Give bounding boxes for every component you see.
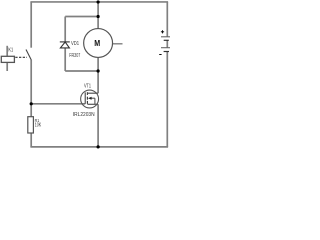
node top rail junction [97, 0, 100, 3]
wire left vertical switch to resistor [30, 60, 32, 117]
wire battery middle link [166, 40, 168, 47]
svg-text:FR307: FR307 [69, 53, 80, 59]
motor right stub [113, 43, 123, 45]
battery GB1 cell2 long plate [161, 47, 171, 49]
wire diode branch lower [64, 48, 66, 71]
battery GB1 cell1 short plate [164, 39, 169, 41]
wire diode branch upper [64, 17, 66, 42]
wire inner rail [65, 16, 98, 18]
resistor R1 body [28, 117, 34, 133]
battery GB1 cell1 long plate [161, 36, 171, 38]
node inner rail junction [97, 15, 100, 18]
svg-text:10K: 10K [35, 122, 42, 128]
wire source vertical [97, 104, 99, 147]
svg-text:VT1: VT1 [84, 83, 91, 89]
svg-text:M: M [94, 38, 100, 48]
wire top dropper to motor [97, 2, 99, 29]
diode VD1 [60, 42, 70, 48]
wire left vertical upper to switch [30, 2, 32, 48]
svg-text:IRL2203N: IRL2203N [73, 112, 95, 118]
transistor VT1 source jog [87, 103, 98, 105]
transistor VT1 circle [81, 90, 99, 108]
battery GB1 cell2 short plate [164, 51, 169, 53]
transistor VT1 gate bar [84, 92, 86, 104]
node drain junction [97, 69, 100, 72]
battery GB1 plus sign [161, 30, 164, 33]
dashed link coil to contact [15, 56, 27, 58]
svg-text:VD1: VD1 [71, 41, 79, 47]
wire bottom rail [30, 146, 168, 148]
transistor VT1 body arrow [88, 97, 92, 100]
wire gate horizontal [31, 103, 85, 105]
wire resistor bottom lead [30, 133, 32, 147]
switch contact K1.1 blade [26, 50, 31, 61]
node bottom rail junction [97, 145, 100, 148]
relay coil top stub [6, 46, 8, 56]
wire top rail [30, 1, 168, 3]
transistor VT1 drain jog [87, 92, 98, 94]
node gate junction [30, 102, 33, 105]
relay coil bottom stub [6, 63, 8, 71]
svg-text:K1: K1 [8, 48, 13, 54]
wire lower link rail [65, 70, 98, 72]
relay coil K1 rectangle [1, 56, 14, 62]
wire battery bottom lead [166, 52, 168, 147]
wire right vertical to battery [166, 2, 168, 37]
wire motor bottom [97, 57, 99, 71]
wire drain vertical [97, 71, 99, 93]
transistor VT1 channel segments [86, 92, 88, 104]
battery GB1 minus sign [159, 54, 161, 56]
transistor VT1 body line [91, 97, 95, 99]
motor M1 circle [84, 29, 113, 58]
